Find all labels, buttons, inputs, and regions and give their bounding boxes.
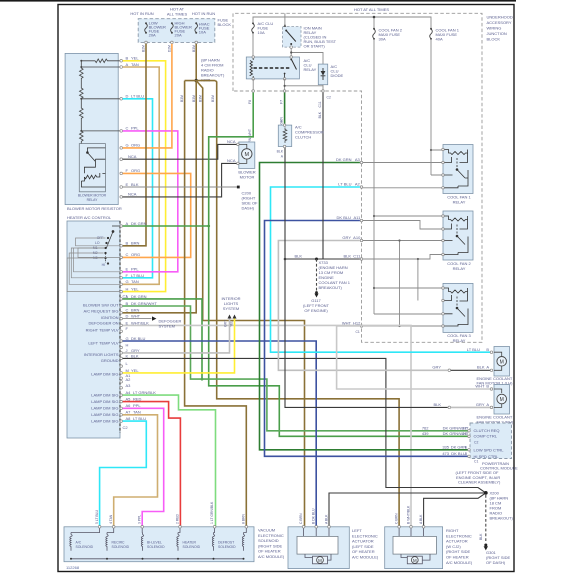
svg-text:D: D — [126, 314, 129, 319]
svg-text:C: C — [126, 126, 129, 131]
svg-text:3 PPL: 3 PPL — [138, 515, 142, 524]
svg-text:GRY: GRY — [432, 365, 441, 370]
dashed BLK to ground G301 — [485, 495, 487, 543]
svg-text:LAMP DIM SIG: LAMP DIM SIG — [91, 399, 118, 404]
splice X200 — [484, 491, 488, 495]
svg-text:C: C — [126, 308, 129, 313]
svg-text:(RIGHT SIDE: (RIGHT SIDE — [446, 549, 470, 554]
heater control internal feed wires — [67, 238, 120, 292]
svg-text:YEL: YEL — [131, 368, 139, 373]
svg-text:OF HEATER: OF HEATER — [352, 549, 375, 554]
svg-text:BLK: BLK — [294, 254, 302, 259]
wire ORG: high blower fuse to resistor G — [123, 44, 172, 148]
wire GRY: heater J to interior lights — [123, 318, 230, 353]
svg-text:B: B — [126, 56, 129, 61]
svg-text:BRN: BRN — [131, 308, 140, 313]
junction block internal wiring: cool fan 1 maxi fuse feed — [431, 39, 443, 175]
diode D: A/C CLU DIODE — [318, 64, 327, 85]
svg-text:40A: 40A — [436, 37, 443, 42]
svg-text:A10: A10 — [353, 235, 361, 240]
wire DK GRN: junction F7 to A/C compressor clutch — [284, 93, 286, 124]
wire PPL: heater A6 to bi-level solenoid — [123, 408, 164, 527]
svg-text:SOLENOID: SOLENOID — [258, 538, 279, 543]
relay K2: COOL FAN 2 RELAY — [443, 211, 473, 260]
svg-text:E: E — [126, 182, 129, 187]
fuse HVAC FUSE 10A — [195, 24, 198, 33]
svg-text:A BLK: A BLK — [324, 514, 328, 524]
svg-text:F8: F8 — [248, 100, 252, 104]
svg-text:LT BLU: LT BLU — [338, 182, 351, 187]
svg-text:DASH): DASH) — [242, 206, 255, 211]
svg-text:M: M — [318, 558, 322, 563]
wire BLK: junction C11 to splice and compressor clutch run — [285, 93, 360, 259]
svg-text:A/C REQUEST SIG: A/C REQUEST SIG — [83, 309, 118, 314]
svg-text:22: 22 — [462, 426, 467, 431]
wire BLK: left actuator to X200 — [329, 493, 486, 527]
svg-text:GRY: GRY — [131, 348, 140, 353]
svg-text:H: H — [126, 342, 129, 347]
svg-text:BLK: BLK — [318, 111, 322, 118]
svg-text:RELAY: RELAY — [453, 266, 466, 271]
svg-text:LT BLU: LT BLU — [131, 273, 144, 278]
junction block internal wiring: cool fan 2 maxi fuse feed — [374, 39, 443, 314]
svg-text:A11: A11 — [353, 215, 361, 220]
svg-text:A: A — [126, 62, 129, 67]
svg-text:C BRN: C BRN — [395, 513, 399, 524]
wire: A/C CLU fuse to relay — [252, 33, 254, 57]
fuse A/C CLU FUSE 10A — [252, 24, 255, 33]
svg-text:ACTUATOR: ACTUATOR — [352, 539, 374, 544]
svg-text:BLK: BLK — [433, 402, 441, 407]
svg-text:A/C MODULE): A/C MODULE) — [446, 560, 473, 565]
junction block internal wiring: A10 to relay2 — [362, 240, 444, 242]
svg-text:A7: A7 — [126, 410, 132, 415]
svg-text:LEFT: LEFT — [352, 528, 362, 533]
svg-text:2 RED: 2 RED — [175, 513, 179, 524]
wire WHT/BLK: heater C2-E to right actuator — [123, 325, 411, 526]
wire TAN: resistor A to heater G — [123, 67, 160, 284]
wire: relay 87 / diode to connectors F7, C11 — [285, 79, 323, 91]
svg-text:RIGHT: RIGHT — [446, 528, 459, 533]
wire PPL: resistor C to heater E — [123, 131, 178, 272]
blower motor relay box (inside resistor box) — [79, 144, 105, 192]
svg-text:CLUTCH REQ: CLUTCH REQ — [474, 428, 500, 433]
svg-text:B3M: B3M — [198, 95, 202, 102]
svg-text:B: B — [486, 383, 489, 388]
svg-text:762: 762 — [422, 426, 429, 431]
svg-text:(RIGHT SIDE: (RIGHT SIDE — [258, 543, 282, 548]
svg-text:A4: A4 — [126, 390, 132, 395]
svg-text:WHT: WHT — [131, 314, 141, 319]
junction block internal wiring: H12 to relay3 — [362, 241, 444, 327]
svg-text:BLK: BLK — [131, 353, 139, 358]
svg-text:HOT IN RUN: HOT IN RUN — [130, 11, 153, 16]
engine coolant fan motor 2 — [494, 385, 510, 415]
wire LT BLU: junction A2 to engine coolant fan motor 1 — [271, 187, 491, 352]
wire DK GRN: junction A3 to PCM 6 — [260, 163, 469, 450]
wire NCA: resistor to blower motor pin B — [123, 163, 237, 197]
svg-text:HOT IN RUN: HOT IN RUN — [192, 11, 215, 16]
svg-text:B DK BLU: B DK BLU — [312, 508, 316, 524]
svg-text:TAN: TAN — [133, 410, 141, 415]
heater pin connectors C1 — [120, 225, 123, 228]
svg-text:30A: 30A — [379, 37, 386, 42]
svg-text:E: E — [126, 320, 129, 325]
svg-text:WHT/BLK: WHT/BLK — [131, 320, 149, 325]
svg-text:G: G — [126, 143, 129, 148]
svg-text:NCA: NCA — [227, 158, 236, 163]
wire LT BLU: resistor D to heater F — [123, 99, 153, 278]
wire BLK: resistor E to C200 — [123, 186, 237, 188]
svg-text:GROUND: GROUND — [101, 358, 119, 363]
svg-text:A BLK: A BLK — [419, 514, 423, 524]
svg-text:C: C — [126, 252, 129, 257]
svg-text:JUNCTION: JUNCTION — [487, 31, 507, 36]
svg-text:H: H — [126, 286, 129, 291]
svg-text:C BRN: C BRN — [299, 513, 303, 524]
svg-text:YEL: YEL — [131, 286, 139, 291]
wire BLK: A/C compressor clutch to fan motor 2 connector — [285, 147, 448, 408]
connectors on junction block left edge — [360, 161, 363, 164]
blower motor M — [239, 142, 255, 168]
svg-text:C11: C11 — [318, 101, 322, 107]
svg-text:LOW SPD CTRL: LOW SPD CTRL — [474, 447, 505, 452]
wire BLK: right actuator to X200 — [424, 493, 486, 527]
svg-text:PPL: PPL — [133, 403, 141, 408]
wire: relay top to diode — [291, 53, 323, 65]
svg-text:CLUTCH: CLUTCH — [295, 135, 311, 140]
svg-text:YEL: YEL — [230, 320, 234, 327]
svg-text:SOLENOID: SOLENOID — [147, 545, 165, 549]
svg-text:LAMP DIM SIG: LAMP DIM SIG — [91, 419, 118, 424]
svg-text:LT BLU: LT BLU — [133, 416, 146, 421]
svg-text:NCA: NCA — [128, 154, 137, 159]
junction block internal wiring: relay1 outputs to A3/A2 — [362, 163, 444, 188]
wire: ION relay to A/C CLU relay — [290, 49, 292, 57]
svg-text:HOT AT ALL TIMES: HOT AT ALL TIMES — [354, 7, 389, 12]
svg-text:OF HEATER: OF HEATER — [446, 555, 469, 560]
svg-text:A3: A3 — [126, 383, 132, 388]
svg-text:BLOCK: BLOCK — [487, 37, 501, 42]
heater pin connectors C2 — [120, 298, 123, 301]
svg-text:C11: C11 — [353, 254, 361, 259]
svg-text:8 BRN: 8 BRN — [242, 513, 246, 524]
wire YEL: resistor B to heater H — [123, 61, 166, 292]
wire TAN branch 2: X205 to heater C2-C BRN — [123, 81, 197, 313]
svg-text:VACUUM: VACUUM — [258, 528, 275, 533]
svg-text:M: M — [126, 368, 129, 373]
svg-text:NCA: NCA — [227, 139, 236, 144]
wire NCA: resistor to blower motor pin A — [123, 144, 237, 159]
svg-text:A6: A6 — [126, 403, 132, 408]
svg-text:B3M: B3M — [192, 95, 196, 102]
heater control connector dashed line C1/C2 — [119, 221, 121, 433]
svg-text:GRY: GRY — [224, 319, 228, 327]
diagram frame — [58, 5, 514, 572]
svg-text:HI: HI — [102, 263, 105, 267]
wire WHT: heater C2-D to defogger arrow — [123, 318, 152, 320]
vacuum electronic solenoid box — [64, 527, 254, 562]
relay: A/C CLU RELAY — [246, 57, 299, 79]
svg-text:DK BLU: DK BLU — [131, 336, 146, 341]
svg-text:112268: 112268 — [66, 565, 80, 570]
svg-text:SOLENOID: SOLENOID — [112, 545, 130, 549]
svg-text:5 LT BLU: 5 LT BLU — [95, 509, 99, 524]
svg-text:OF DASH): OF DASH) — [486, 560, 506, 565]
svg-text:4 TAN: 4 TAN — [109, 514, 113, 524]
connectors on junction block bottom edge — [252, 90, 255, 93]
svg-text:E: E — [126, 267, 129, 272]
blower motor resistor box — [65, 53, 118, 204]
svg-text:ELECTRONIC: ELECTRONIC — [352, 533, 378, 538]
svg-text:DK BLU: DK BLU — [451, 451, 466, 456]
svg-text:ALL TIMES: ALL TIMES — [167, 12, 188, 17]
svg-text:BLOWER MOTOR RESISTOR: BLOWER MOTOR RESISTOR — [67, 206, 122, 211]
svg-text:B3M: B3M — [180, 95, 184, 102]
svg-text:(W CJ2): (W CJ2) — [446, 544, 461, 549]
svg-text:K: K — [126, 353, 129, 358]
solenoid coils and labels — [70, 528, 247, 559]
resistor box pin connectors — [120, 60, 123, 63]
svg-text:LEFT TEMP VLV: LEFT TEMP VLV — [88, 341, 118, 346]
junction block internal wiring: A11 to relay2 — [362, 221, 444, 230]
wire DK GRN: heater C1-A up to F8 path — [123, 225, 209, 227]
svg-text:ACTUATOR: ACTUATOR — [446, 539, 468, 544]
svg-text:ELECTRONIC: ELECTRONIC — [446, 533, 472, 538]
fuse block bottom connectors — [145, 41, 148, 44]
svg-text:A8: A8 — [126, 416, 132, 421]
svg-text:MOTOR: MOTOR — [240, 174, 255, 179]
wire DK BLU: junction A11 to PCM 3 — [265, 221, 469, 457]
svg-text:WIRING: WIRING — [487, 26, 502, 31]
svg-text:10A: 10A — [258, 30, 265, 35]
svg-text:28: 28 — [462, 431, 467, 436]
svg-text:G: G — [126, 279, 129, 284]
svg-text:RELAY: RELAY — [87, 198, 99, 202]
svg-text:GRY: GRY — [476, 402, 485, 407]
svg-text:C1: C1 — [474, 460, 478, 464]
svg-text:LAMP DIM SIG: LAMP DIM SIG — [91, 406, 118, 411]
svg-text:TAN: TAN — [131, 62, 139, 67]
svg-text:A: A — [486, 365, 489, 370]
svg-text:LT BLU: LT BLU — [131, 94, 144, 99]
svg-text:BREAKOUT): BREAKOUT) — [490, 516, 514, 521]
svg-text:RECIRC: RECIRC — [112, 541, 126, 545]
svg-text:PPL: PPL — [131, 267, 139, 272]
svg-text:IGNITION: IGNITION — [101, 315, 119, 320]
wire TAN branch 4: X205 to right actuator BRN — [215, 81, 399, 527]
wire: relay 30 to connector F8 — [252, 79, 254, 91]
wire TAN: hvac fuse to splice X205 — [195, 44, 197, 81]
svg-text:LT BLU: LT BLU — [467, 347, 480, 352]
svg-text:TAN: TAN — [131, 279, 139, 284]
fuse COOL FAN 1 MAXI FUSE 40A — [430, 29, 433, 39]
svg-text:COMP CTRL: COMP CTRL — [474, 434, 498, 439]
wire GRY: connector to fan motor 2 pin A — [451, 406, 490, 408]
svg-text:INTERIOR LIGHTS: INTERIOR LIGHTS — [84, 352, 119, 357]
relay U: ION MAIN RELAY (dashed box) — [283, 27, 301, 47]
svg-text:BLK: BLK — [277, 150, 284, 154]
wire TAN(dark): low blower fuse to heater B BRN — [123, 44, 146, 246]
wire TAN branch 3: X205 to left actuator BRN — [196, 81, 304, 527]
svg-text:(LEFT SIDE: (LEFT SIDE — [352, 544, 374, 549]
svg-text:RIGHT TEMP VLV: RIGHT TEMP VLV — [86, 327, 119, 332]
wire WHT: junction H12 to fan motor 2 pin B — [337, 326, 490, 389]
svg-text:335: 335 — [442, 445, 449, 450]
relay K1: COOL FAN 1 RELAY — [443, 145, 473, 194]
junction block internal wiring: C11 to relay2 — [362, 255, 444, 260]
svg-text:M: M — [500, 359, 504, 365]
wire GRY: junction A10 to fan motor 1 connector — [278, 241, 447, 371]
svg-text:G: G — [126, 336, 129, 341]
svg-text:M: M — [500, 397, 504, 403]
engine coolant fan motor 1 — [494, 347, 510, 377]
svg-text:BLOCK: BLOCK — [218, 22, 232, 27]
wire TAN branch 1: X205 to defrost solenoid BRN — [185, 81, 247, 527]
svg-text:473: 473 — [442, 451, 449, 456]
svg-text:RELAY: RELAY — [453, 338, 466, 343]
svg-text:OF ENGINE): OF ENGINE) — [304, 308, 328, 313]
svg-text:PPL: PPL — [131, 126, 139, 131]
svg-text:A/C MODULE): A/C MODULE) — [258, 554, 285, 559]
right electronic actuator — [385, 527, 443, 569]
svg-text:BLK: BLK — [477, 365, 485, 370]
svg-text:SYSTEM: SYSTEM — [223, 306, 239, 311]
svg-text:BI-LEVEL: BI-LEVEL — [147, 541, 162, 545]
svg-text:M: M — [245, 152, 250, 158]
svg-text:LAMP DIM SIG: LAMP DIM SIG — [91, 412, 118, 417]
svg-text:C2: C2 — [123, 425, 129, 430]
junction on bus — [373, 16, 376, 19]
svg-text:SYSTEM: SYSTEM — [159, 324, 175, 329]
svg-text:M: M — [413, 558, 417, 563]
underhood accessory wiring junction block (dashed outline) — [233, 13, 482, 342]
svg-text:439: 439 — [422, 431, 429, 436]
powertrain control module (dashed box) — [470, 423, 512, 459]
svg-text:A: A — [126, 221, 129, 226]
wire DK GRN: heater C2-A joining DK GRN/WHT run — [123, 299, 202, 379]
svg-text:C2: C2 — [327, 96, 331, 100]
fuse COOL FAN 2 MAXI FUSE 30A — [373, 29, 376, 39]
fuse block (dashed box) — [138, 19, 215, 43]
svg-text:ORG: ORG — [131, 252, 140, 257]
wire YEL: heater M to interior lights — [123, 318, 235, 373]
junction block internal wiring: relay3 switch feed — [417, 259, 419, 301]
wire DK GRN/WHT: heater C2-B to PCM 22 — [123, 306, 469, 431]
svg-text:LT GRN/BLK: LT GRN/BLK — [133, 390, 156, 395]
svg-text:D: D — [126, 94, 129, 99]
svg-text:B: B — [126, 241, 129, 246]
svg-text:B: B — [486, 347, 489, 352]
svg-text:HEATER A/C CONTROL: HEATER A/C CONTROL — [67, 215, 112, 220]
svg-text:SOLENOID: SOLENOID — [183, 545, 201, 549]
X205 tan bus — [185, 80, 216, 82]
svg-text:BLOWER S/W OUT: BLOWER S/W OUT — [83, 303, 119, 308]
svg-text:ELECTRONIC: ELECTRONIC — [258, 533, 284, 538]
svg-text:LAMP DIM SIG: LAMP DIM SIG — [91, 393, 118, 398]
splice X205 — [195, 79, 198, 82]
svg-text:CLEANER ASSEMBLY): CLEANER ASSEMBLY) — [458, 480, 501, 485]
svg-text:UNDERHOOD: UNDERHOOD — [487, 15, 513, 20]
svg-text:B3M: B3M — [211, 95, 215, 102]
svg-text:DK GRN: DK GRN — [336, 157, 352, 162]
svg-text:A5: A5 — [126, 397, 132, 402]
svg-text:B2M: B2M — [142, 45, 146, 52]
svg-text:ORG: ORG — [131, 168, 140, 173]
wire DK BLU: heater C2-G to left actuator — [123, 341, 317, 527]
svg-text:B3M: B3M — [192, 45, 196, 52]
wire RED: heater A5 to heater solenoid — [123, 402, 181, 527]
svg-text:DIODE: DIODE — [331, 73, 344, 78]
solenoid pins — [98, 526, 101, 529]
splice to ground G117 (dashed) — [316, 259, 318, 291]
svg-text:BLK: BLK — [131, 182, 139, 187]
svg-text:LAMP DIM SIG: LAMP DIM SIG — [91, 372, 118, 377]
svg-text:F7: F7 — [280, 100, 284, 104]
resistor network inside — [80, 59, 120, 144]
svg-text:BRN: BRN — [131, 241, 140, 246]
svg-text:20A: 20A — [175, 33, 182, 38]
svg-text:DEFROST: DEFROST — [218, 541, 234, 545]
fuse HIGH BLOWER FUSE 20A — [171, 24, 174, 33]
svg-text:F: F — [281, 119, 283, 123]
wire BLK: heater K to splice X200 — [123, 358, 486, 493]
svg-text:B WHT/BLK: B WHT/BLK — [406, 505, 410, 524]
svg-text:RELAY: RELAY — [304, 67, 317, 72]
svg-text:RELAY: RELAY — [453, 200, 466, 205]
wire BLK: connector to fan motor 1 pin A — [451, 369, 490, 371]
svg-text:LO: LO — [95, 241, 100, 245]
svg-text:ORG: ORG — [131, 143, 140, 148]
svg-text:BLK: BLK — [479, 533, 483, 540]
svg-text:NCA: NCA — [128, 192, 137, 197]
svg-text:ACCESSORY: ACCESSORY — [487, 20, 512, 25]
svg-text:10A: 10A — [199, 30, 206, 35]
left electronic actuator — [288, 527, 349, 569]
wire TAN: heater A7 to recirc solenoid — [114, 415, 158, 527]
wire ORG: resistor F to heater C — [123, 173, 191, 257]
svg-text:DK GRN: DK GRN — [131, 221, 147, 226]
svg-text:WHT: WHT — [475, 383, 485, 388]
svg-text:OR START): OR START) — [304, 44, 326, 49]
svg-text:HI SPD CTRL: HI SPD CTRL — [474, 454, 500, 459]
svg-text:DEFOGGER ON: DEFOGGER ON — [88, 321, 118, 326]
hot-at-all-times bus wire — [253, 17, 431, 28]
svg-text:OF HEATER: OF HEATER — [258, 549, 281, 554]
svg-text:RED: RED — [133, 397, 142, 402]
svg-text:A: A — [486, 402, 489, 407]
A/C compressor clutch — [278, 125, 291, 146]
svg-text:GRY: GRY — [342, 235, 351, 240]
svg-text:DK BLU: DK BLU — [337, 215, 352, 220]
svg-text:HEATER: HEATER — [183, 541, 197, 545]
svg-text:SOLENOID: SOLENOID — [218, 545, 236, 549]
svg-text:C2: C2 — [474, 440, 478, 444]
svg-text:D2M: D2M — [168, 45, 172, 52]
svg-text:1 LT GRN/BLK: 1 LT GRN/BLK — [210, 501, 214, 524]
svg-text:YEL: YEL — [131, 56, 139, 61]
svg-text:A3: A3 — [355, 157, 361, 162]
rotary switch inside heater control — [105, 226, 120, 264]
svg-text:A/C MODULE): A/C MODULE) — [352, 555, 379, 560]
svg-text:A/C: A/C — [76, 541, 82, 545]
svg-text:C1: C1 — [355, 330, 359, 334]
relay K3: COOL FAN 3 RELAY — [443, 283, 473, 332]
fuse LOW BLOWER FUSE 20A — [145, 24, 148, 33]
inline connector on fan motor 1 wire — [448, 369, 451, 372]
wire DK GRN/WHT: junction F8 down to PCM 28 — [209, 93, 469, 437]
svg-text:BLK: BLK — [343, 254, 351, 259]
